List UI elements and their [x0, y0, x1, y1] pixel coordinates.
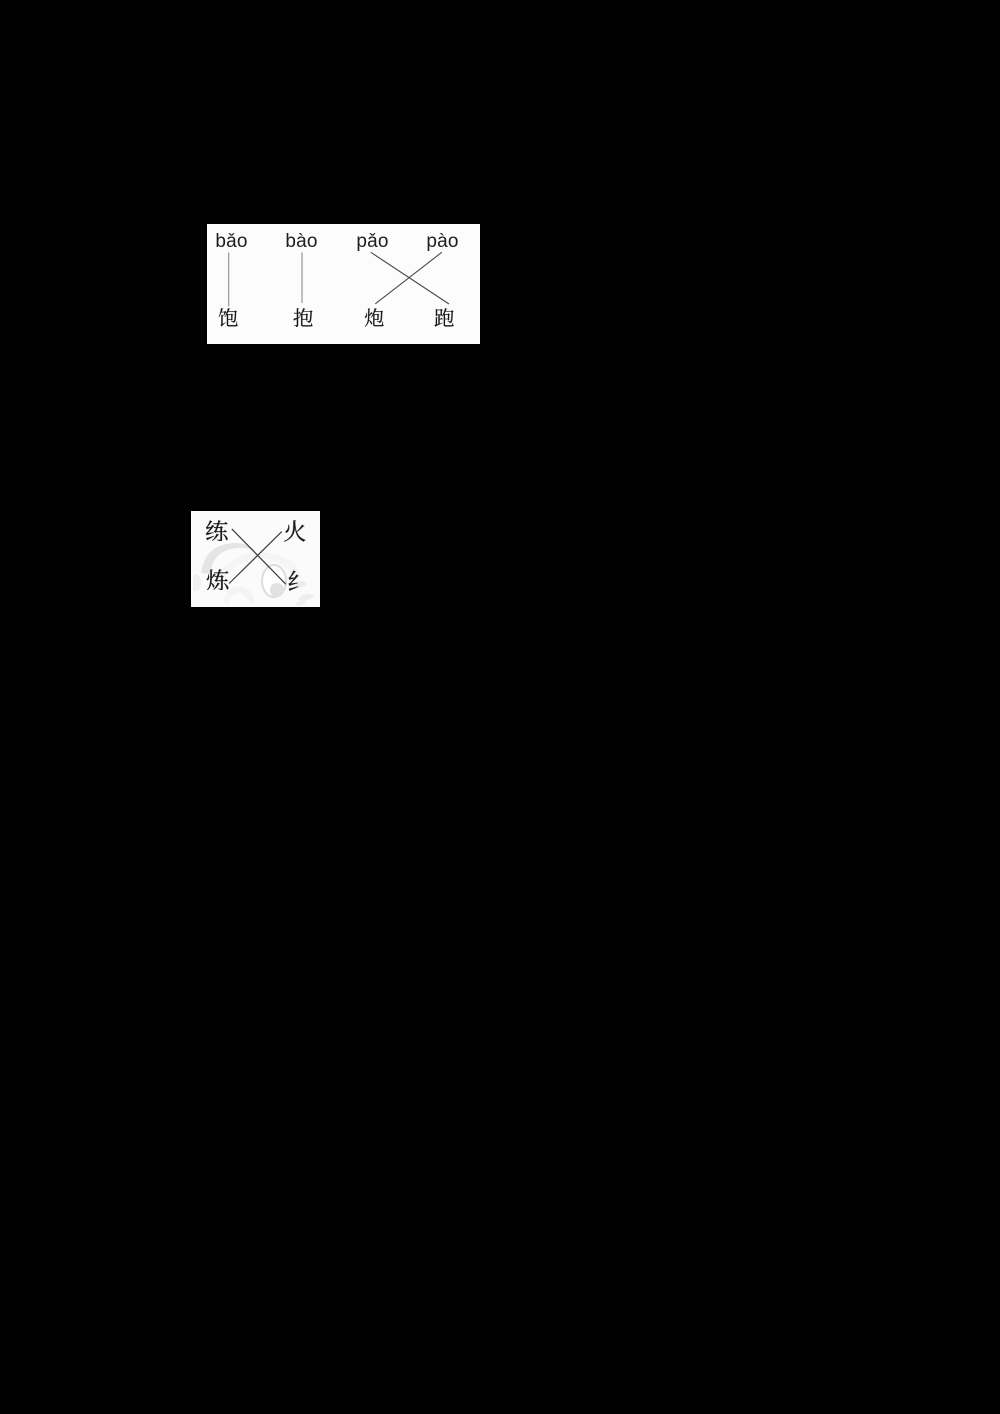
pinyin bǎo — [182, 232, 282, 252]
line 火-炼 — [229, 532, 282, 584]
character 炼 — [206, 569, 229, 591]
line pǎo-跑 (cross) — [371, 252, 449, 304]
character 炮 — [364, 308, 384, 327]
watermark left edge blob — [193, 575, 201, 591]
connector lines panel 2 — [191, 511, 320, 607]
watermark petal 3 — [295, 600, 307, 605]
line bǎo-饱 — [228, 253, 230, 307]
character 练 — [205, 520, 228, 542]
character 饱 — [218, 308, 238, 327]
pinyin bào — [252, 232, 352, 252]
line 练-纟 — [232, 529, 286, 584]
pinyin pào — [393, 232, 493, 252]
watermark eye pupil — [270, 583, 284, 597]
panel 1: pinyin matching box — [207, 224, 480, 344]
character 抱 — [293, 308, 313, 327]
watermark faint dome — [211, 553, 301, 585]
line pào-炮 (cross) — [375, 252, 442, 304]
watermark drawing — [191, 511, 320, 607]
watermark small arc bottom-left — [223, 587, 255, 603]
character 纟 — [287, 570, 310, 592]
character 火 — [283, 520, 306, 542]
panel 2: character matching box with watermark — [191, 511, 320, 607]
connector lines panel 1 — [207, 224, 480, 344]
character 跑 — [434, 308, 454, 327]
watermark big arch — [201, 543, 260, 574]
pinyin pǎo — [323, 232, 423, 252]
watermark petals — [293, 581, 307, 589]
watermark eye ball — [262, 565, 286, 597]
line bào-抱 — [301, 253, 303, 304]
